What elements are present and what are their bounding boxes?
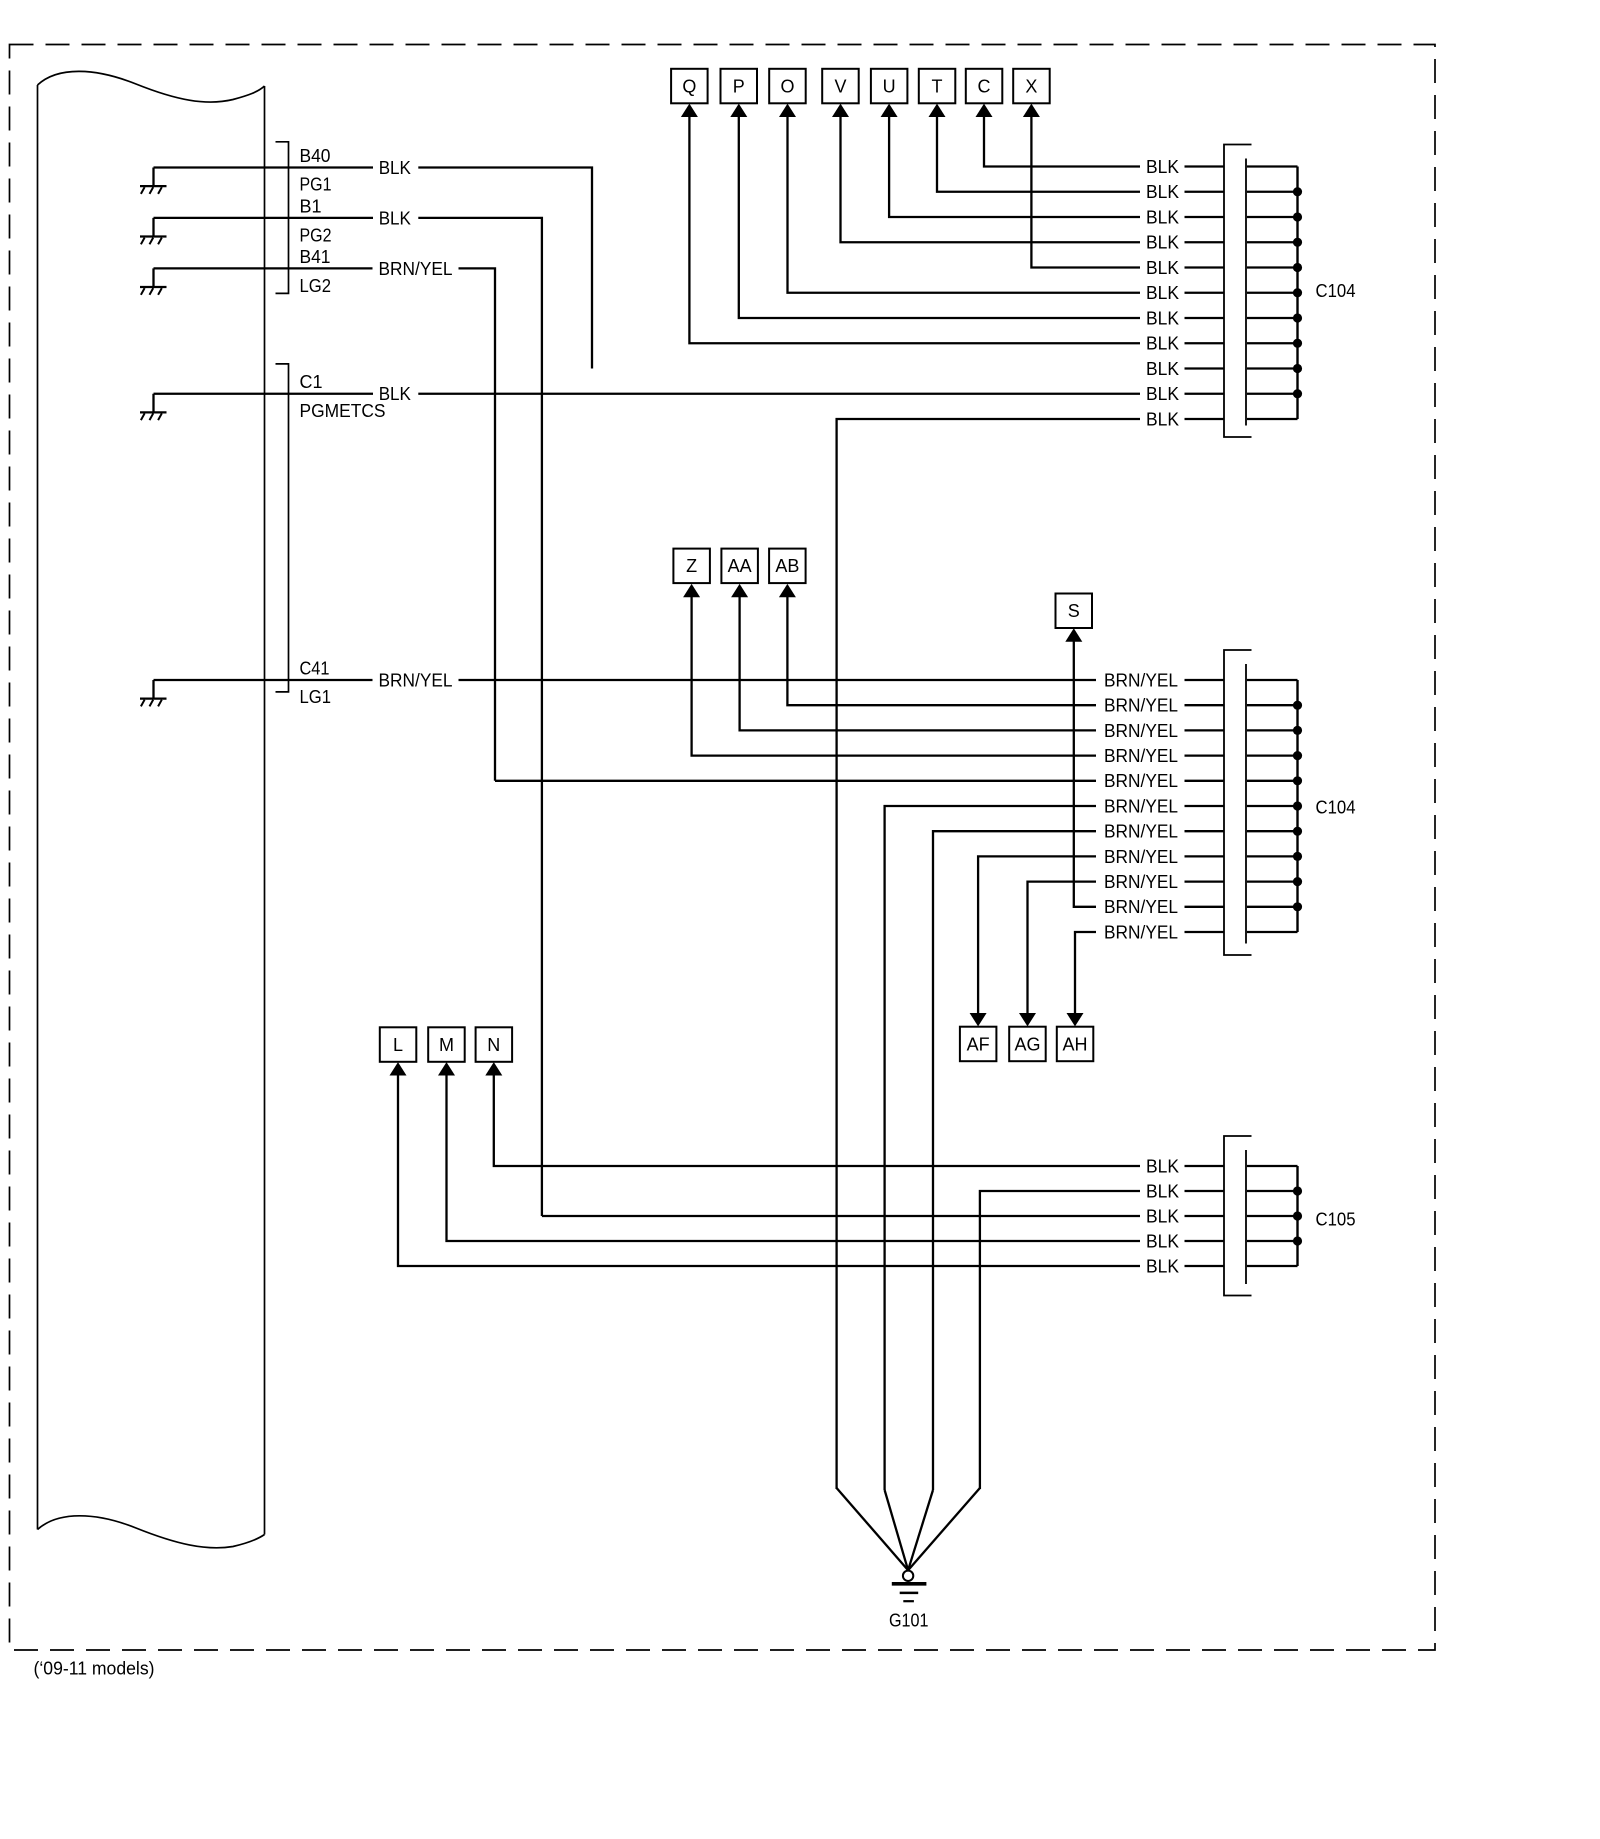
svg-text:BLK: BLK [1146,1256,1179,1276]
svg-text:P: P [733,77,745,97]
terminal box N [476,1027,512,1062]
svg-text:PG1: PG1 [300,175,332,195]
svg-text:AB: AB [775,556,799,576]
wire BRN/YEL C104 lower row 5 (from B41) [495,780,1096,782]
wire stub C104 lower row 3 [1185,729,1225,731]
svg-text:LG2: LG2 [300,276,332,296]
svg-text:BRN/YEL: BRN/YEL [1104,872,1178,892]
svg-text:BRN/YEL: BRN/YEL [1104,847,1178,867]
arrow into T [929,104,946,117]
terminal box AG [1009,1027,1045,1062]
svg-text:BLK: BLK [1146,359,1179,379]
arrow into AB [779,584,796,597]
connector C105 (BLK) [1224,1136,1302,1296]
wire stub C105 row 5 [1185,1265,1225,1267]
ground at pin C41/LG1 [140,680,167,706]
wire from terminal P to C104 row [739,116,1140,318]
arrow into U [881,104,898,117]
wire from terminal AA to C104 lower row [740,596,1096,730]
terminal box P [721,69,758,104]
svg-text:N: N [487,1035,500,1055]
wire stub C104 lower row 1 [1185,679,1225,681]
wire BLK pin B1/PG2 [154,218,542,1216]
wire diagonal from x=836.6 to G101 [837,1488,909,1570]
PCM block torn bottom edge [38,1516,265,1548]
wire stub C104 lower row 2 [1185,704,1225,706]
wire stub C104 lower row 10 [1185,906,1225,908]
svg-text:BLK: BLK [379,208,411,228]
svg-text:X: X [1025,77,1037,97]
svg-text:AH: AH [1062,1034,1087,1054]
wire stub C104 upper row 8 [1185,342,1225,344]
wire stub C104 upper row 4 [1185,241,1225,243]
wire stub C104 upper row 9 [1185,367,1225,369]
svg-text:B41: B41 [300,247,331,267]
wire from terminal Q to C104 row [689,116,1140,343]
svg-text:C1: C1 [300,372,323,392]
wire from terminal U to C104 row [889,116,1140,217]
wire stub C104 lower row 11 [1185,931,1225,933]
wire stub C104 lower row 4 [1185,754,1225,756]
wire stub C104 lower row 7 [1185,830,1225,832]
svg-text:AG: AG [1014,1034,1040,1054]
PCM block right edge [264,86,266,1535]
svg-text:BRN/YEL: BRN/YEL [1104,670,1178,690]
terminal box Q [671,69,708,104]
wire BLK pin B40/PG1 [154,168,593,369]
svg-text:BLK: BLK [1146,283,1179,303]
bracket pin group C1/PGMETCS/C41/LG1 [276,364,289,692]
arrow into P [730,104,747,117]
svg-text:BRN/YEL: BRN/YEL [379,259,453,279]
svg-text:C: C [978,77,991,97]
wire stub C104 upper row 6 [1185,292,1225,294]
arrow into X [1023,104,1040,117]
svg-text:BLK: BLK [1146,207,1179,227]
svg-text:BRN/YEL: BRN/YEL [1104,721,1178,741]
svg-text:B1: B1 [300,196,322,216]
svg-text:C104: C104 [1316,281,1356,301]
wire stub C105 row 1 [1185,1165,1225,1167]
wire stub C105 row 2 [1185,1190,1225,1192]
arrow into AG [1019,1013,1036,1026]
svg-text:AA: AA [728,556,752,576]
svg-text:BRN/YEL: BRN/YEL [1104,696,1178,716]
svg-text:BRN/YEL: BRN/YEL [1104,796,1178,816]
svg-text:BLK: BLK [1146,334,1179,354]
wire BLK pin C1/PGMETCS to C104 row 10 [154,393,1141,395]
wire BLK C104 row 11 down to G101 [837,419,1140,1489]
svg-text:S: S [1068,601,1080,621]
wire BRN/YEL pin B41/LG2 [154,268,496,780]
wire stub C105 row 3 [1185,1215,1225,1217]
arrow into M [438,1062,455,1075]
arrow into S [1065,628,1082,641]
wire from terminal Z to C104 lower row [692,596,1096,755]
arrow into AH [1067,1013,1084,1026]
connector C104 (lower, BRN/YEL) [1224,650,1302,955]
terminal box X [1013,69,1049,104]
terminal box O [769,69,806,104]
arrow into Z [683,584,700,597]
svg-text:BRN/YEL: BRN/YEL [1104,822,1178,842]
wire BRN/YEL C104 lower row 9 down to terminal AG [1028,882,1097,1014]
wire from terminal T to C104 row [937,116,1140,192]
svg-text:BLK: BLK [1146,182,1179,202]
svg-text:BLK: BLK [1146,1156,1179,1176]
PCM block torn top edge [38,71,265,102]
bracket pin group B40/PG1/B1/PG2/B41/LG2 [276,142,289,294]
terminal box AB [769,549,806,584]
ground at pin C1/PGMETCS [140,394,167,420]
svg-text:B40: B40 [300,146,331,166]
wire stub C104 lower row 6 [1185,805,1225,807]
wire BLK C105 row 3 (from B1) [542,1215,1140,1217]
arrow into Q [681,104,698,117]
svg-text:BLK: BLK [379,158,411,178]
svg-text:BLK: BLK [1146,384,1179,404]
svg-text:BLK: BLK [1146,1231,1179,1251]
svg-text:BLK: BLK [1146,258,1179,278]
wire diagonal from x=884.6 to G101 [885,1490,909,1570]
terminal box V [822,69,859,104]
svg-text:L: L [393,1035,403,1055]
terminal box S [1056,594,1093,629]
svg-text:BLK: BLK [1146,409,1179,429]
svg-text:O: O [780,77,794,97]
wire from terminal O to C104 row [788,116,1141,293]
terminal box AA [721,549,758,584]
svg-text:(‘09-11 models): (‘09-11 models) [34,1659,155,1679]
wire stub C104 upper row 1 [1185,165,1225,167]
svg-text:BLK: BLK [1146,1206,1179,1226]
svg-text:BRN/YEL: BRN/YEL [379,670,453,690]
svg-text:BLK: BLK [1146,157,1179,177]
arrow into V [832,104,849,117]
wire stub C104 upper row 11 [1185,418,1225,420]
wire stub C104 upper row 3 [1185,216,1225,218]
svg-text:V: V [834,77,846,97]
wire from terminal L to C105 row [398,1075,1140,1267]
wire from terminal M to C105 row [447,1075,1141,1242]
arrow into AF [970,1013,987,1026]
arrow into N [485,1062,502,1075]
svg-text:T: T [932,77,943,97]
wire BRN/YEL C104 lower row 6 down to G101 [885,806,1096,1490]
ground at pin B1/PG2 [140,218,167,244]
svg-text:U: U [883,77,896,97]
ground at pin B41/LG2 [140,268,167,294]
wire from terminal S down to C104 lower row 10 [1074,641,1096,907]
svg-text:Q: Q [682,77,696,97]
wire stub C104 upper row 7 [1185,317,1225,319]
terminal box C [966,69,1003,104]
terminal box AH [1057,1027,1094,1062]
wire from terminal N to C105 row [494,1075,1140,1167]
svg-text:BLK: BLK [1146,233,1179,253]
svg-text:BLK: BLK [1146,308,1179,328]
wire BRN/YEL C104 lower row 8 down to terminal AF [978,856,1096,1014]
arrow into AA [731,584,748,597]
terminal box Z [673,549,710,584]
terminal box T [919,69,956,104]
wire stub C104 upper row 10 [1185,393,1225,395]
svg-text:M: M [439,1035,454,1055]
svg-text:LG1: LG1 [300,687,332,707]
terminal box U [871,69,908,104]
svg-text:BRN/YEL: BRN/YEL [1104,897,1178,917]
svg-text:C104: C104 [1316,798,1356,818]
svg-text:BRN/YEL: BRN/YEL [1104,771,1178,791]
svg-text:PGMETCS: PGMETCS [300,401,386,421]
svg-text:BRN/YEL: BRN/YEL [1104,746,1178,766]
wire from terminal V to C104 row [841,116,1141,242]
svg-text:BLK: BLK [1146,1181,1179,1201]
terminal box AF [960,1027,997,1062]
svg-text:C105: C105 [1316,1210,1356,1230]
wire stub C104 lower row 8 [1185,855,1225,857]
wire from terminal AB to C104 lower row [787,596,1096,705]
wire BRN/YEL C104 lower row 11 down to terminal AH [1075,932,1096,1014]
PCM block left edge [37,85,39,1530]
arrow into L [390,1062,407,1075]
wire stub C104 lower row 9 [1185,880,1225,882]
terminal box L [380,1027,417,1062]
wire stub C104 upper row 2 [1185,191,1225,193]
wire stub C105 row 4 [1185,1240,1225,1242]
svg-text:PG2: PG2 [300,225,332,245]
wire BLK C105 row 2 down to G101 [980,1191,1140,1489]
wire from terminal C to C104 row [984,116,1140,167]
svg-text:BRN/YEL: BRN/YEL [1104,922,1178,942]
ground G101 [892,1571,927,1602]
wire from terminal X to C104 row [1031,116,1140,268]
wire BRN/YEL C104 lower row 7 down to G101 [933,831,1096,1490]
ground at pin B40/PG1 [140,168,167,194]
arrow into C [976,104,993,117]
svg-text:BLK: BLK [379,384,411,404]
connector C104 (upper, BLK) [1224,145,1302,438]
wire diagonal from x=979.9 to G101 [908,1488,980,1570]
wire stub C104 lower row 5 [1185,780,1225,782]
terminal box M [428,1027,465,1062]
svg-text:C41: C41 [300,659,330,679]
svg-text:AF: AF [967,1034,990,1054]
wire diagonal from x=933 to G101 [908,1490,933,1570]
svg-text:G101: G101 [889,1611,929,1631]
wire BRN/YEL pin C41/LG1 to C104 row 1 [154,679,1097,681]
dashed border frame [10,45,1436,1651]
svg-text:Z: Z [686,556,697,576]
arrow into O [779,104,796,117]
wire stub C104 upper row 5 [1185,266,1225,268]
